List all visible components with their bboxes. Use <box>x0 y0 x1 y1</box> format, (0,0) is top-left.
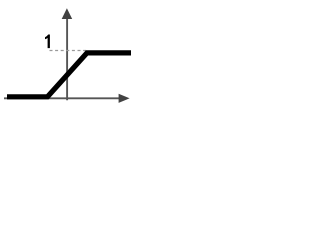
saturation curve <box>7 53 131 97</box>
y-axis <box>66 16 68 100</box>
x-axis <box>4 97 120 99</box>
dashed level line y=1 <box>50 50 89 52</box>
x-axis arrowhead <box>119 94 130 103</box>
label 1 <box>45 35 50 49</box>
y-axis arrowhead <box>62 8 72 19</box>
